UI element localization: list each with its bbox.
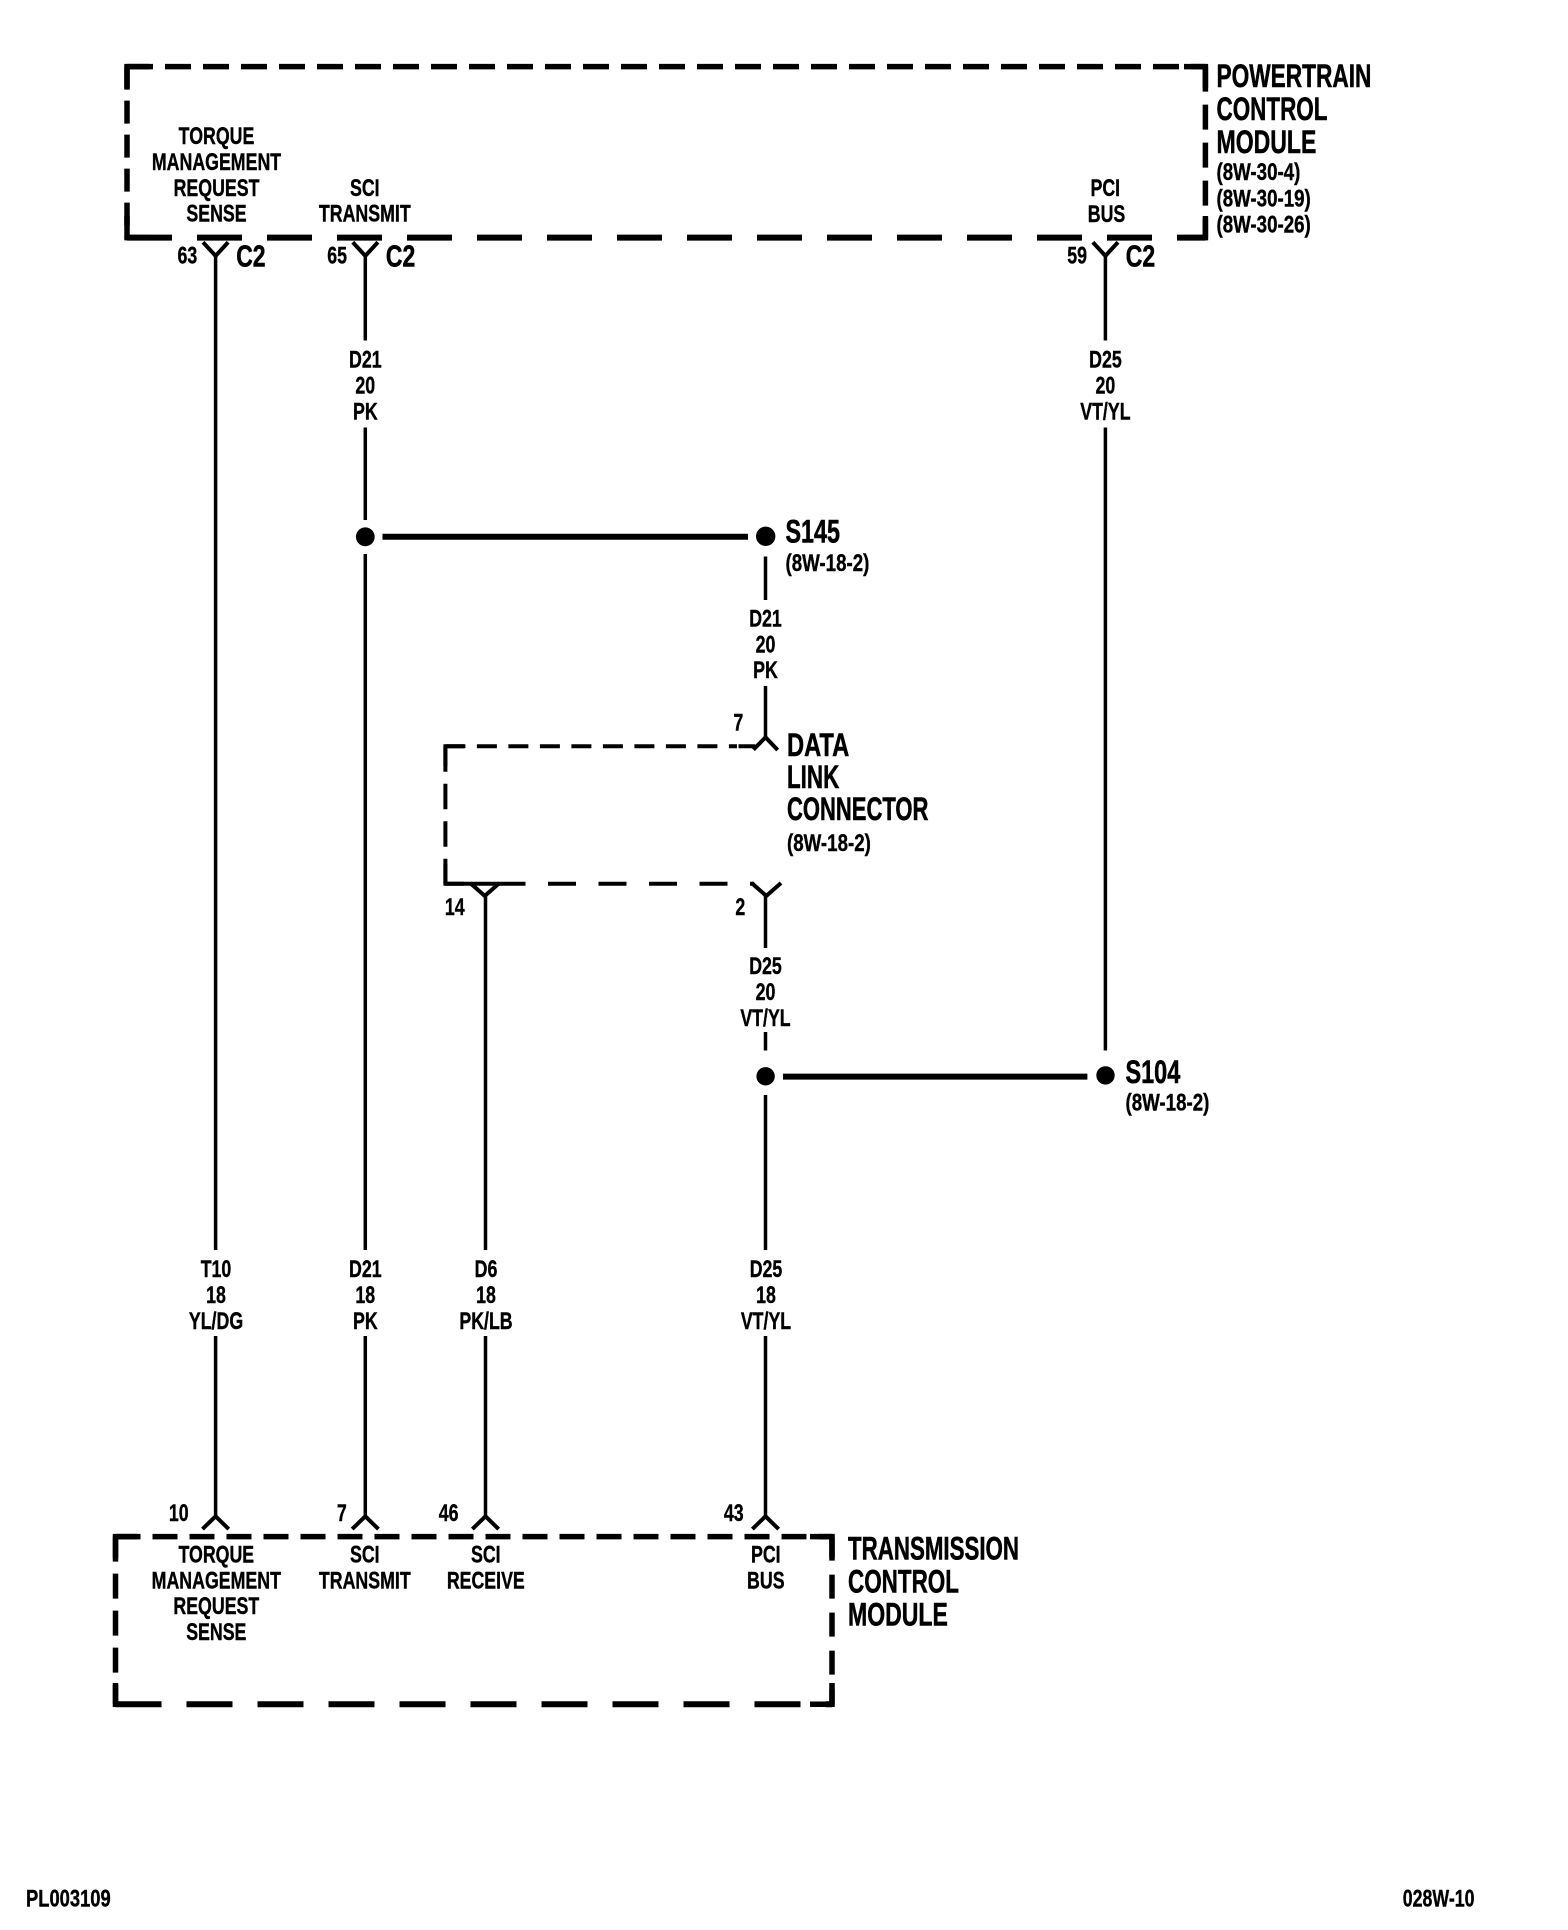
- svg-text:D6: D6: [475, 1257, 498, 1283]
- svg-text:7: 7: [337, 1501, 347, 1527]
- svg-text:59: 59: [1067, 243, 1087, 269]
- svg-text:D21: D21: [749, 606, 782, 632]
- svg-text:C2: C2: [386, 240, 415, 274]
- svg-text:PL003109: PL003109: [26, 1885, 111, 1912]
- svg-text:D25: D25: [1089, 347, 1122, 373]
- svg-text:MANAGEMENT: MANAGEMENT: [152, 150, 281, 176]
- svg-text:LINK: LINK: [787, 759, 839, 795]
- svg-text:D21: D21: [349, 1257, 382, 1283]
- svg-text:REQUEST: REQUEST: [174, 175, 260, 201]
- svg-text:MODULE: MODULE: [1217, 124, 1317, 160]
- svg-text:(8W-18-2): (8W-18-2): [786, 550, 870, 577]
- svg-text:(8W-30-19): (8W-30-19): [1217, 185, 1311, 212]
- svg-text:(8W-18-2): (8W-18-2): [1126, 1089, 1210, 1116]
- svg-text:CONTROL: CONTROL: [848, 1564, 959, 1600]
- svg-text:20: 20: [756, 980, 776, 1006]
- svg-text:2: 2: [735, 895, 745, 921]
- svg-text:43: 43: [724, 1501, 744, 1527]
- svg-text:MODULE: MODULE: [848, 1597, 948, 1633]
- svg-text:20: 20: [1096, 373, 1116, 399]
- svg-text:18: 18: [206, 1283, 226, 1309]
- svg-text:SCI: SCI: [350, 1542, 380, 1568]
- svg-text:D25: D25: [750, 1257, 783, 1283]
- svg-text:7: 7: [733, 710, 743, 736]
- svg-text:CONTROL: CONTROL: [1217, 91, 1328, 127]
- svg-text:BUS: BUS: [1088, 202, 1126, 228]
- svg-text:18: 18: [756, 1283, 776, 1309]
- svg-text:65: 65: [327, 243, 347, 269]
- svg-text:TORQUE: TORQUE: [179, 124, 255, 150]
- svg-text:20: 20: [355, 373, 375, 399]
- svg-text:18: 18: [355, 1283, 375, 1309]
- svg-text:14: 14: [445, 895, 465, 921]
- svg-text:(8W-18-2): (8W-18-2): [787, 830, 871, 857]
- svg-text:PK: PK: [753, 658, 778, 684]
- svg-text:(8W-30-26): (8W-30-26): [1217, 211, 1311, 238]
- svg-text:PK: PK: [353, 399, 378, 425]
- svg-text:CONNECTOR: CONNECTOR: [787, 791, 929, 827]
- svg-text:PCI: PCI: [751, 1542, 781, 1568]
- svg-text:63: 63: [178, 243, 198, 269]
- svg-text:PK: PK: [353, 1309, 378, 1335]
- svg-text:(8W-30-4): (8W-30-4): [1217, 159, 1301, 186]
- svg-text:REQUEST: REQUEST: [173, 1594, 259, 1620]
- svg-text:SENSE: SENSE: [186, 1620, 246, 1646]
- svg-text:VT/YL: VT/YL: [1080, 399, 1130, 425]
- svg-text:BUS: BUS: [747, 1568, 785, 1594]
- svg-text:46: 46: [439, 1501, 459, 1527]
- svg-text:SCI: SCI: [471, 1542, 501, 1568]
- svg-text:18: 18: [476, 1283, 496, 1309]
- svg-text:VT/YL: VT/YL: [741, 1309, 791, 1335]
- svg-text:POWERTRAIN: POWERTRAIN: [1217, 58, 1372, 94]
- svg-text:PK/LB: PK/LB: [459, 1309, 512, 1335]
- svg-text:S145: S145: [786, 514, 840, 549]
- svg-text:YL/DG: YL/DG: [189, 1309, 243, 1335]
- svg-text:10: 10: [169, 1501, 189, 1527]
- svg-text:VT/YL: VT/YL: [740, 1006, 790, 1032]
- svg-text:D21: D21: [349, 347, 382, 373]
- svg-text:C2: C2: [236, 240, 265, 274]
- svg-text:20: 20: [756, 632, 776, 658]
- svg-text:SENSE: SENSE: [186, 201, 246, 227]
- svg-text:028W-10: 028W-10: [1403, 1886, 1475, 1912]
- svg-text:D25: D25: [749, 954, 782, 980]
- svg-text:TRANSMISSION: TRANSMISSION: [848, 1530, 1019, 1566]
- svg-text:TRANSMIT: TRANSMIT: [319, 1568, 411, 1594]
- svg-text:TORQUE: TORQUE: [178, 1542, 254, 1568]
- svg-text:DATA: DATA: [787, 728, 849, 763]
- svg-text:PCI: PCI: [1090, 176, 1120, 202]
- svg-text:MANAGEMENT: MANAGEMENT: [152, 1568, 281, 1594]
- svg-text:C2: C2: [1126, 240, 1155, 274]
- svg-text:T10: T10: [201, 1257, 232, 1283]
- svg-text:TRANSMIT: TRANSMIT: [319, 201, 411, 227]
- svg-text:SCI: SCI: [350, 175, 380, 201]
- svg-text:S104: S104: [1126, 1054, 1181, 1089]
- svg-text:RECEIVE: RECEIVE: [447, 1568, 525, 1594]
